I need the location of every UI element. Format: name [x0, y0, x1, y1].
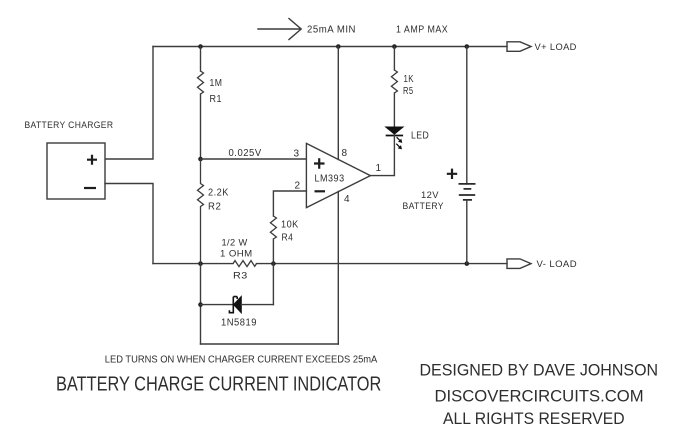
svg-text:4: 4 [344, 194, 350, 205]
svg-text:DISCOVERCIRCUITS.COM: DISCOVERCIRCUITS.COM [435, 388, 644, 406]
svg-text:12V: 12V [421, 190, 439, 201]
node dot: V- rail / R4 column [271, 261, 276, 266]
svg-text:1K: 1K [404, 74, 415, 85]
wire: top rail down-left to charger + terminal [105, 47, 153, 160]
battery B1 plates [459, 184, 476, 200]
svg-text:2.2K: 2.2K [208, 188, 229, 199]
resistor R5 zigzag [391, 70, 397, 93]
wire: pin 2 to R4 top [273, 191, 306, 216]
node dot: V- rail / battery [465, 261, 470, 266]
battery B1 top lead [466, 47, 468, 184]
LED light arrow 2 [396, 144, 400, 148]
wire: 0.025V node to op-amp pin 3 [201, 158, 307, 160]
svg-text:1N5819: 1N5819 [221, 318, 257, 329]
node dot: R1/R2 junction (0.025V node) [198, 157, 203, 162]
node dot: diode junction left [198, 302, 203, 307]
op-amp U1 LM393 triangle [306, 143, 370, 207]
node dot: top rail / R5 [392, 44, 397, 49]
svg-text:10K: 10K [281, 220, 299, 231]
svg-text:LM393: LM393 [315, 174, 345, 185]
wire: diode anode side [201, 304, 234, 306]
svg-text:1 AMP MAX: 1 AMP MAX [396, 25, 448, 36]
LED light arrow 1 [397, 137, 401, 141]
LED D2 cathode bar [386, 135, 403, 137]
svg-text:1 OHM: 1 OHM [220, 249, 253, 260]
resistor R5 bottom lead [393, 93, 395, 127]
svg-text:R5: R5 [403, 86, 414, 97]
svg-text:25mA MIN: 25mA MIN [307, 25, 356, 36]
wire: pin 4 lead to bottom rail [337, 192, 339, 345]
svg-text:R3: R3 [233, 271, 248, 282]
resistor R4 zigzag [270, 216, 276, 239]
current direction arrow (25mA) [258, 19, 301, 40]
svg-text:V+ LOAD: V+ LOAD [535, 42, 577, 53]
wire: R2 column below V- rail to bottom rail [200, 264, 202, 344]
wire: LED cathode down to pin 1 and op-amp output [370, 136, 394, 176]
V+ LOAD output flag [507, 42, 531, 52]
wire: V- rail left segment [153, 263, 233, 265]
wire: charger - terminal to V- rail [105, 184, 153, 264]
svg-text:1/2 W: 1/2 W [222, 238, 248, 249]
svg-text:8: 8 [342, 148, 348, 159]
wire: R4 column to diode wire [272, 264, 274, 305]
svg-text:2: 2 [295, 180, 301, 191]
node dot: V- rail / R2 column [198, 261, 203, 266]
node dot: top rail / battery [465, 44, 470, 49]
battery charger + terminal mark [87, 155, 97, 165]
svg-text:BATTERY: BATTERY [403, 201, 445, 212]
resistor R1 top lead [200, 47, 202, 72]
resistor R1 bottom lead [200, 94, 202, 159]
resistor R3 (1 OHM 1/2 W) zigzag [233, 261, 257, 267]
battery charger box [47, 143, 105, 199]
op-amp + input mark [314, 158, 325, 169]
wire: bottom rail [201, 343, 339, 345]
node dot: top rail / R1 column [198, 44, 203, 49]
svg-text:3: 3 [294, 149, 300, 160]
svg-text:R2: R2 [208, 202, 221, 213]
wire: pin 8 lead from top rail [337, 47, 339, 160]
battery B1 bottom lead [466, 200, 468, 264]
svg-text:R1: R1 [210, 94, 223, 105]
wire: V- rail right segment [257, 263, 508, 265]
LED D2 triangle [386, 127, 403, 134]
resistor R2 zigzag [198, 159, 204, 264]
svg-text:BATTERY CHARGER: BATTERY CHARGER [25, 120, 114, 131]
diode D1 1N5819 triangle [234, 296, 242, 313]
wire: diode cathode side [241, 304, 273, 306]
svg-text:R4: R4 [282, 233, 294, 244]
svg-text:V- LOAD: V- LOAD [537, 259, 578, 270]
battery charger - terminal mark [84, 187, 96, 189]
resistor R5 top lead [393, 47, 395, 71]
svg-text:BATTERY CHARGE CURRENT INDICAT: BATTERY CHARGE CURRENT INDICATOR [56, 373, 381, 396]
svg-text:LED TURNS ON WHEN CHARGER CURR: LED TURNS ON WHEN CHARGER CURRENT EXCEED… [105, 355, 378, 366]
svg-text:1M: 1M [210, 78, 223, 89]
svg-text:1: 1 [376, 163, 382, 174]
svg-text:LED: LED [411, 131, 429, 142]
node dot: top rail / op-amp supply [336, 44, 341, 49]
wire: top V+ rail [153, 46, 507, 48]
svg-text:0.025V: 0.025V [229, 148, 262, 159]
svg-text:ALL RIGHTS RESERVED: ALL RIGHTS RESERVED [443, 410, 625, 428]
wire: R4 bottom to V- rail [272, 239, 274, 264]
resistor R1 zigzag [198, 71, 204, 94]
diode D1 schottky cathode bar [229, 297, 237, 313]
battery + polarity mark [447, 169, 457, 179]
V- LOAD output flag [507, 259, 531, 269]
svg-text:DESIGNED BY DAVE JOHNSON: DESIGNED BY DAVE JOHNSON [420, 362, 659, 380]
op-amp - input mark [315, 190, 326, 192]
